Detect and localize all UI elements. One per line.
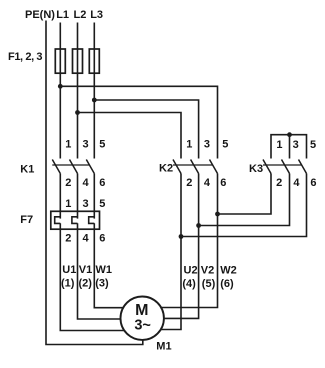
- svg-text:U1: U1: [62, 264, 76, 276]
- svg-text:K1: K1: [20, 163, 34, 175]
- svg-text:L3: L3: [90, 9, 103, 21]
- wire PE conductor to motor frame: [46, 21, 143, 345]
- wire K2 pin4 to motor V2: [142, 174, 199, 319]
- wire L2: [77, 23, 79, 159]
- wire K1 pin6 to F7 pin5: [93, 174, 95, 219]
- contactor K2 contacts: [173, 160, 218, 174]
- motor M1 circle: [121, 297, 164, 340]
- fuse F1: [55, 49, 65, 73]
- svg-text:K2: K2: [159, 162, 173, 174]
- svg-text:F1, 2, 3: F1, 2, 3: [8, 51, 42, 63]
- wire K2 pin2 to motor U2: [142, 174, 181, 330]
- svg-text:(3): (3): [95, 278, 109, 290]
- wire L1 tap to K2 pin 5: [60, 86, 217, 158]
- overload relay F7 box: [51, 211, 100, 229]
- svg-text:5: 5: [222, 139, 228, 151]
- svg-text:4: 4: [83, 233, 90, 245]
- wire F7 pin6 to motor W1: [94, 223, 142, 308]
- wire L1: [59, 23, 61, 159]
- svg-text:1: 1: [276, 139, 282, 151]
- node U2 junction: [179, 234, 184, 239]
- svg-text:6: 6: [99, 177, 105, 189]
- svg-text:L2: L2: [74, 9, 87, 21]
- svg-text:K3: K3: [249, 163, 263, 175]
- wire K3 star bridge: [271, 135, 307, 159]
- svg-text:PE(N): PE(N): [25, 9, 55, 21]
- svg-text:2: 2: [65, 233, 71, 245]
- fuse F3: [89, 49, 99, 73]
- heater element F7 pole 2: [72, 217, 78, 224]
- svg-text:4: 4: [83, 177, 90, 189]
- svg-text:6: 6: [310, 177, 316, 189]
- svg-text:(1): (1): [61, 278, 75, 290]
- svg-text:2: 2: [276, 177, 282, 189]
- node L2 tap: [75, 110, 80, 115]
- node L1 tap: [58, 84, 63, 89]
- svg-text:(4): (4): [182, 278, 196, 290]
- wire L3: [93, 23, 95, 159]
- wire L3 tap to K2 pin 3: [94, 100, 198, 159]
- svg-text:W2: W2: [220, 264, 237, 276]
- node V2 junction: [196, 223, 201, 228]
- wire K3 pin2 to W2 node: [218, 174, 272, 215]
- svg-text:F7: F7: [20, 214, 33, 226]
- node star bridge: [287, 132, 292, 137]
- svg-text:5: 5: [310, 139, 316, 151]
- svg-text:2: 2: [65, 177, 71, 189]
- svg-text:4: 4: [204, 177, 211, 189]
- svg-text:W1: W1: [96, 264, 113, 276]
- wire K2 pin6 to motor W2: [142, 174, 218, 308]
- svg-text:V1: V1: [79, 264, 92, 276]
- svg-text:5: 5: [99, 139, 105, 151]
- wire F7 pin2 to motor U1: [60, 223, 142, 330]
- svg-text:V2: V2: [201, 264, 214, 276]
- node L3 tap: [92, 98, 97, 103]
- svg-text:M1: M1: [156, 341, 171, 353]
- wire K1 pin4 to F7 pin3: [77, 174, 79, 219]
- wire L2 tap to K2 pin 1: [78, 113, 182, 159]
- svg-text:6: 6: [99, 233, 105, 245]
- svg-text:4: 4: [293, 177, 300, 189]
- svg-text:6: 6: [220, 177, 226, 189]
- svg-text:2: 2: [186, 177, 192, 189]
- heater element F7 pole 1: [55, 217, 61, 224]
- wire F7 pin4 to motor V1: [78, 223, 143, 319]
- svg-text:3: 3: [83, 198, 89, 210]
- svg-text:3~: 3~: [134, 318, 151, 334]
- wire K1 pin2 to F7 pin1: [59, 174, 61, 219]
- svg-text:1: 1: [65, 198, 71, 210]
- contactor K3 contacts: [263, 160, 307, 174]
- svg-text:L1: L1: [56, 9, 69, 21]
- svg-text:1: 1: [186, 139, 192, 151]
- svg-text:3: 3: [83, 139, 89, 151]
- wire K3 pin4 to V2 node: [199, 174, 290, 226]
- contactor K1 contacts: [52, 160, 94, 174]
- wire K3 pin6 to U2 node: [181, 174, 307, 237]
- fuse F2: [73, 49, 83, 73]
- svg-text:(5): (5): [202, 278, 216, 290]
- svg-text:(6): (6): [220, 278, 234, 290]
- svg-text:(2): (2): [79, 278, 93, 290]
- svg-text:1: 1: [65, 139, 71, 151]
- heater element F7 pole 3: [89, 217, 95, 224]
- svg-text:U2: U2: [184, 264, 198, 276]
- svg-text:5: 5: [99, 198, 105, 210]
- svg-text:3: 3: [293, 139, 299, 151]
- svg-text:3: 3: [204, 139, 210, 151]
- node W2 junction: [215, 212, 220, 217]
